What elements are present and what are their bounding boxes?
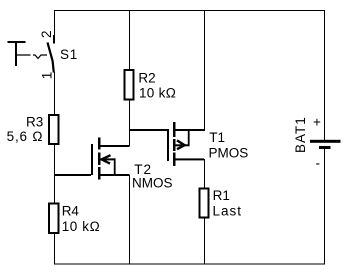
transistor T2 NMOS [91,138,173,191]
channel segment source [173,122,176,137]
svg-text:T1: T1 [209,130,225,145]
svg-text:+: + [313,115,321,130]
svg-text:NMOS: NMOS [132,176,173,191]
wire T2 source to bottom rail [129,175,130,264]
svg-text:-: - [316,155,321,170]
wire right rail upper [324,10,325,140]
body arrow [102,155,111,163]
wire left drop to switch [54,10,55,36]
resistor R1 [200,189,209,218]
switch S1 [8,30,79,79]
channel segment drain [98,138,101,150]
wire switch to R3 [54,72,55,114]
body stub [175,144,190,146]
svg-text:R3: R3 [26,115,43,130]
svg-text:10 kΩ: 10 kΩ [139,86,176,101]
plus plate [310,140,341,143]
svg-text:BAT1: BAT1 [293,116,308,153]
svg-text:10 kΩ: 10 kΩ [62,219,101,234]
wire R3 to R4 [54,144,55,204]
drain stub [100,145,130,147]
wire R1 to bottom rail [204,218,205,265]
channel segment body [98,153,101,166]
body to source connector [188,129,190,146]
body to source connector [114,158,116,175]
svg-text:PMOS: PMOS [209,146,249,161]
svg-text:S1: S1 [60,47,78,62]
body arrow [177,140,185,149]
channel segment source [98,167,101,180]
source stub [100,174,130,176]
wire bottom rail [54,264,325,265]
channel segment drain [173,153,176,167]
resistor R2 [125,70,134,100]
wire gate tap to T2 [54,174,91,176]
wire top rail to R2 [129,10,130,69]
svg-text:R1: R1 [213,188,230,203]
svg-text:R4: R4 [62,204,80,219]
svg-text:1: 1 [39,72,54,80]
wire T1 drain to R1 [204,159,205,189]
svg-text:5,6 Ω: 5,6 Ω [7,129,44,144]
wire top rail [54,10,325,11]
svg-text:R2: R2 [138,70,155,85]
gate bar [91,144,93,175]
body stub [100,158,116,160]
battery BAT1 [293,115,341,171]
contact 2 tick [53,35,55,44]
resistor R3 [49,115,59,144]
source stub [175,129,205,131]
wire R4 to bottom rail [54,233,55,264]
wire top rail to T1 source [204,10,205,130]
svg-text:Last: Last [213,204,243,219]
linkage dashed [17,55,47,59]
channel segment body [173,139,176,151]
gate bar [167,129,169,161]
minus plate [319,146,331,149]
transistor T1 PMOS [167,122,248,166]
wire R2 to T2 drain [129,100,130,146]
svg-text:2: 2 [39,30,54,38]
drain stub [175,158,204,160]
wire right rail lower [324,149,325,264]
actuator T-bar [8,41,26,43]
blade [48,43,54,73]
wire node to T1 gate [129,129,167,131]
resistor R4 [49,204,59,234]
